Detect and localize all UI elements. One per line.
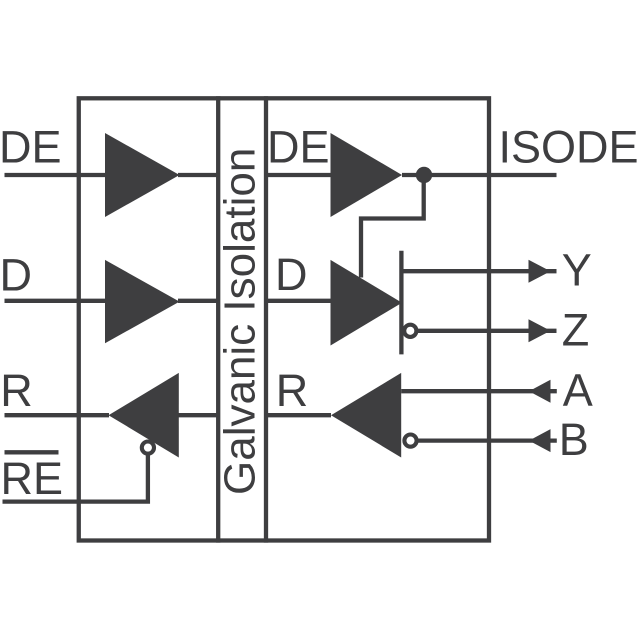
wire Y output — [401, 269, 556, 273]
svg-text:DE: DE — [0, 122, 62, 173]
wire B input — [416, 438, 557, 442]
wire A input — [401, 389, 557, 393]
wire D left input — [5, 299, 107, 303]
wire ISODE output — [424, 173, 557, 177]
isolation barrier right line — [264, 96, 268, 542]
driver output bar — [399, 251, 403, 355]
wire R left receiver input from barrier — [178, 413, 218, 417]
driver U5 D right — [331, 260, 403, 346]
svg-text:B: B — [559, 414, 589, 465]
wire DE right buffer output to node — [402, 173, 424, 177]
wire D left buffer output to barrier — [178, 299, 218, 303]
svg-text:ISODE: ISODE — [499, 122, 639, 173]
buffer U1 DE left — [105, 133, 180, 217]
enable bubble left receiver — [142, 442, 154, 454]
svg-text:D: D — [0, 249, 32, 300]
isolation barrier left line — [216, 96, 220, 542]
bubble B inverted input — [404, 435, 416, 447]
wire DE right from barrier — [266, 173, 331, 177]
svg-text:DE: DE — [267, 122, 330, 173]
wire R right from barrier — [266, 413, 331, 417]
svg-text:D: D — [275, 249, 308, 300]
buffer U4 DE right — [331, 133, 403, 217]
arrowhead Y — [529, 260, 551, 283]
bubble Z inverted output — [404, 325, 416, 337]
wire DE left input — [5, 173, 107, 177]
arrowhead B — [529, 429, 551, 452]
svg-text:R: R — [0, 365, 33, 416]
buffer U2 D left — [105, 260, 180, 343]
arrowhead A — [529, 380, 551, 403]
wire Z output — [416, 329, 557, 333]
svg-text:A: A — [563, 365, 593, 416]
RE overline — [5, 450, 59, 454]
arrowhead Z — [529, 319, 551, 342]
wire D right from barrier — [266, 299, 331, 303]
receiver U3 R left — [109, 373, 179, 458]
wire DE node to driver enable — [361, 175, 424, 278]
receiver U6 R right — [331, 373, 401, 458]
svg-text:R: R — [276, 365, 309, 416]
wire DE left buffer output to barrier — [178, 173, 218, 177]
svg-text:RE: RE — [1, 453, 64, 504]
svg-text:Y: Y — [562, 244, 592, 295]
svg-text:Galvanic Isolation: Galvanic Isolation — [216, 148, 265, 495]
wire RE input and up to enable bubble — [3, 448, 148, 502]
IC outline box — [79, 98, 489, 540]
junction dot DE node — [416, 167, 432, 183]
svg-text:Z: Z — [562, 305, 590, 356]
wire R left output — [5, 413, 110, 417]
